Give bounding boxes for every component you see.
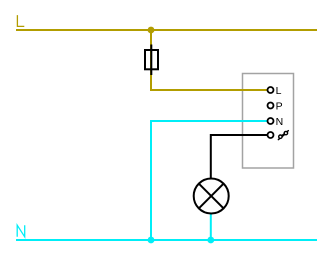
terminal switched-lamp (scissors) symbol	[278, 131, 288, 140]
wire from L junction to fuse and terminal L	[151, 30, 267, 90]
node L (phase) label	[17, 15, 24, 26]
junction on N line right	[207, 237, 214, 244]
terminal L circle	[268, 87, 274, 93]
terminal block box	[243, 74, 294, 169]
node N (neutral) label	[17, 225, 25, 237]
terminal N circle	[268, 118, 274, 124]
N line horizontal	[16, 239, 317, 241]
svg-text:P: P	[276, 100, 283, 112]
wire black switched line from terminal to lamp	[211, 135, 267, 179]
wire cyan from lamp to N line	[210, 213, 212, 240]
lamp E1	[194, 179, 229, 214]
wire L line horizontal	[16, 29, 317, 31]
junction on N line left	[148, 237, 155, 244]
svg-text:N: N	[276, 116, 284, 128]
terminal P circle	[268, 103, 274, 109]
terminal switched circle	[268, 132, 274, 138]
wire cyan from N line up to terminal N	[151, 121, 267, 240]
fuse F1	[145, 45, 158, 76]
svg-text:L: L	[276, 85, 282, 97]
junction on L line	[148, 27, 155, 34]
